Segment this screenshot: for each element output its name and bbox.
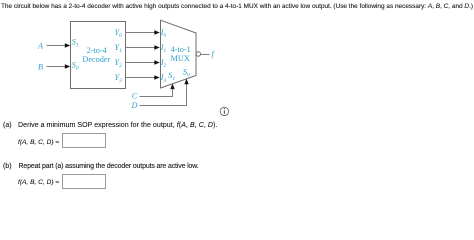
wire B xyxy=(47,66,67,68)
wire Y1 to I1 xyxy=(126,47,156,49)
problem statement xyxy=(1,3,473,10)
svg-text:2-to-4: 2-to-4 xyxy=(87,46,107,55)
svg-text:A: A xyxy=(37,42,44,51)
svg-text:MUX: MUX xyxy=(171,54,190,63)
wire Y2 to I2 xyxy=(126,62,156,64)
svg-text:B: B xyxy=(38,63,43,72)
svg-text:D: D xyxy=(131,101,138,110)
question (b) xyxy=(3,163,12,170)
wire A xyxy=(47,45,67,47)
wire D to S0 xyxy=(140,83,187,106)
answer box (a) xyxy=(62,133,106,148)
svg-text:Decoder: Decoder xyxy=(82,55,110,64)
svg-text:4-to-1: 4-to-1 xyxy=(171,45,191,54)
wire Y0 to I0 xyxy=(126,32,156,34)
answer box (b) xyxy=(62,174,106,189)
answer label (a) xyxy=(18,139,59,146)
svg-text:f: f xyxy=(212,50,216,59)
mux U2 4-to-1 trapezoid xyxy=(161,20,197,88)
svg-text:C: C xyxy=(132,92,138,101)
wire Y3 to I3 xyxy=(126,77,156,79)
info icon xyxy=(220,107,228,115)
question (a) xyxy=(3,122,12,129)
wire f xyxy=(201,54,210,56)
answer label (b) xyxy=(18,179,59,186)
decoder U1 2-to-4 xyxy=(71,22,126,89)
wire C to S1 xyxy=(140,87,173,97)
output inversion bubble xyxy=(196,52,200,56)
